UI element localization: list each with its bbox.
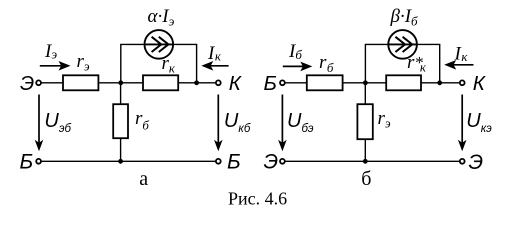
- terminal Э bottom-right (circuit б): [460, 159, 465, 164]
- wire r_э vertical branch (circuit б): [364, 83, 366, 162]
- wire bottom rail (circuit a): [41, 160, 216, 162]
- terminal К (circuit б): [460, 80, 465, 85]
- svg-text:Б: Б: [264, 72, 277, 95]
- node junction left (circuit a): [118, 80, 123, 85]
- node junction bottom (circuit a): [118, 159, 123, 164]
- current source α·Iэ (circuit a): [145, 30, 174, 59]
- resistor r*_к (circuit б): [386, 75, 421, 90]
- terminal Э bottom-left (circuit б): [280, 159, 285, 164]
- svg-text:Э: Э: [264, 150, 279, 173]
- svg-text:Б: Б: [20, 150, 34, 173]
- svg-text:б: б: [361, 168, 371, 190]
- wire main rail (circuit a): [41, 82, 216, 84]
- terminal Б (circuit б): [280, 80, 285, 85]
- node junction right (circuit a): [194, 80, 199, 85]
- terminal Э (circuit a): [36, 80, 41, 85]
- voltage arrow U_бэ (circuit б): [278, 95, 287, 152]
- resistor r_б vertical (circuit a): [113, 104, 128, 138]
- terminal К (circuit a): [216, 80, 221, 85]
- wire top branch with risers (circuit a): [121, 44, 197, 82]
- terminal Б bottom-right (circuit a): [216, 159, 221, 164]
- node junction bottom (circuit б): [363, 159, 368, 164]
- svg-text:а: а: [139, 168, 148, 190]
- node junction left (circuit б): [363, 80, 368, 85]
- current arrow I_к (circuit a): [201, 61, 228, 71]
- voltage arrow U_эб (circuit a): [35, 95, 44, 152]
- wire bottom rail (circuit б): [285, 160, 460, 162]
- node junction right (circuit б): [437, 80, 442, 85]
- voltage arrow U_кб (circuit a): [214, 95, 223, 152]
- current arrow I_к (circuit б): [444, 60, 473, 70]
- resistor r_к (circuit a): [143, 75, 178, 90]
- wire r_b vertical branch (circuit a): [120, 83, 122, 162]
- svg-text:К: К: [473, 72, 487, 95]
- resistor r_э vertical (circuit б): [357, 104, 372, 139]
- svg-text:Рис. 4.6: Рис. 4.6: [228, 189, 287, 209]
- resistor r_э (circuit a): [63, 75, 98, 90]
- svg-text:К: К: [229, 72, 243, 95]
- current arrow I_б (circuit б): [283, 62, 313, 72]
- wire main rail (circuit б): [285, 82, 460, 84]
- current source β·Iб (circuit б): [388, 30, 417, 59]
- voltage arrow U_кэ (circuit б): [458, 95, 467, 152]
- wire top branch with risers (circuit б): [365, 44, 439, 82]
- svg-text:Э: Э: [20, 72, 34, 95]
- current arrow I_э (circuit a): [40, 61, 71, 71]
- terminal Б bottom-left (circuit a): [36, 159, 41, 164]
- svg-text:Э: Э: [469, 151, 484, 174]
- resistor r_б (circuit б): [307, 75, 343, 90]
- svg-text:Б: Б: [227, 150, 241, 173]
